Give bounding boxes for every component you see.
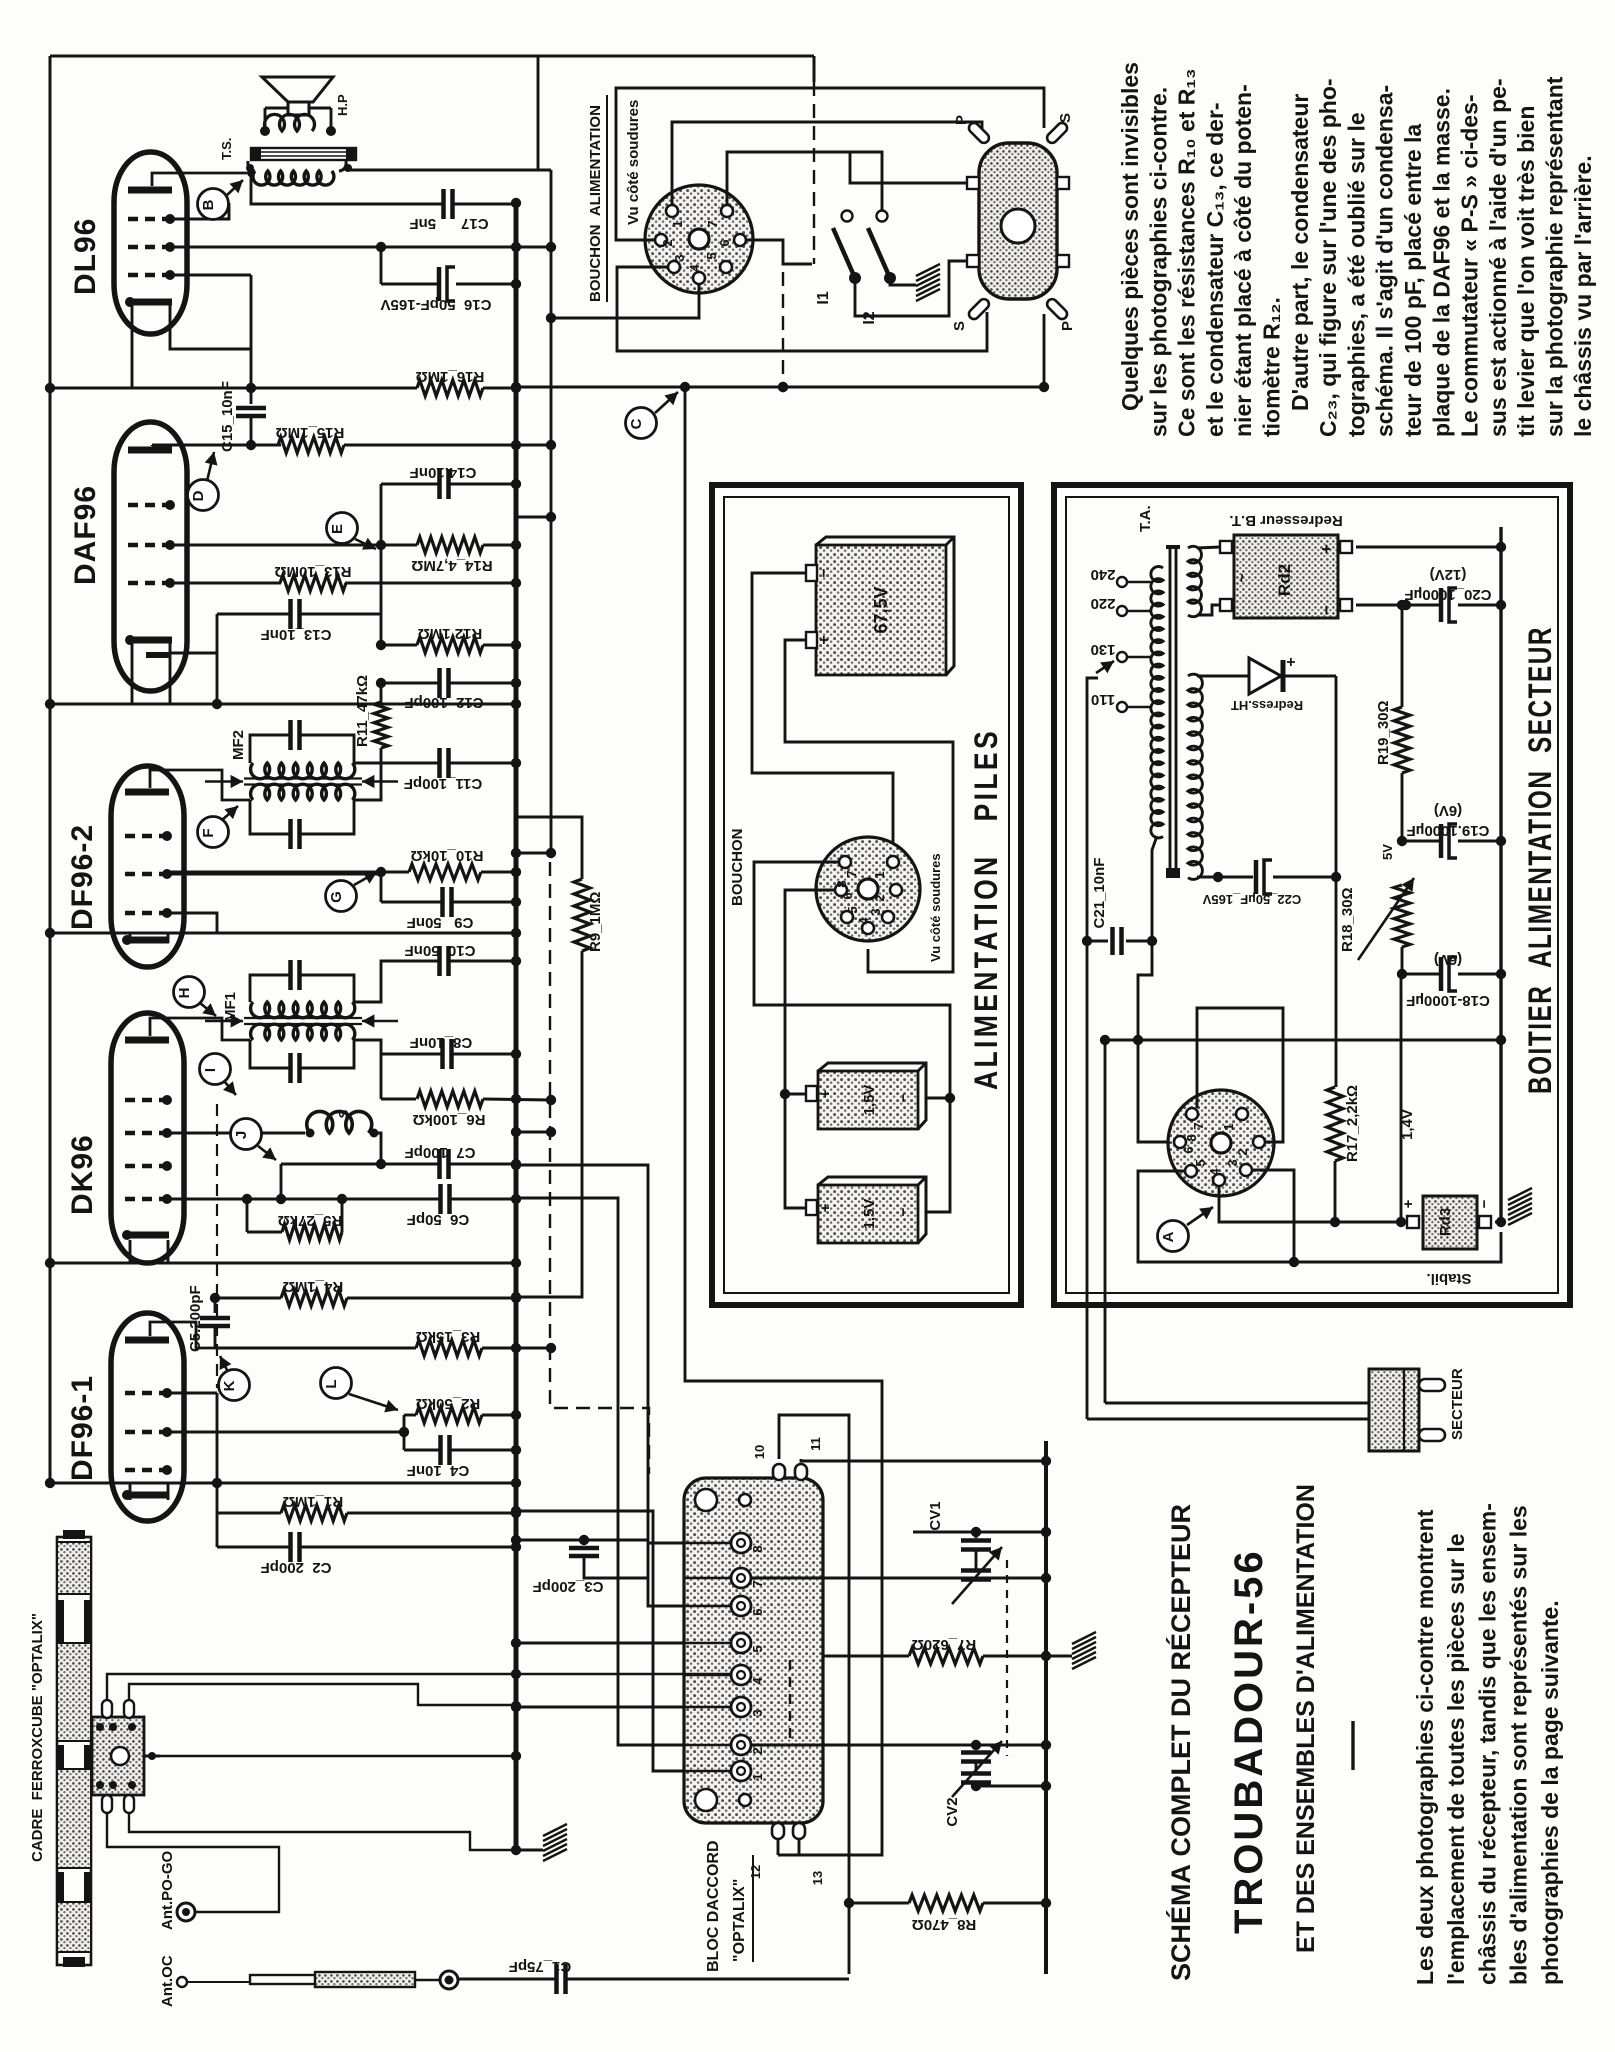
- svg-text:T.A.: T.A.: [1137, 505, 1154, 532]
- svg-text:Rd3: Rd3: [1437, 1208, 1454, 1236]
- svg-text:7: 7: [705, 220, 720, 227]
- label CV2: [944, 1797, 961, 1826]
- wire filament line DF96-2 row: [45, 928, 521, 938]
- node B: [198, 180, 244, 220]
- wire DF96-1 anode lead: [150, 1322, 215, 1348]
- svg-text:K: K: [221, 1380, 238, 1391]
- capacitor C9: [381, 872, 521, 917]
- svg-text:Redresseur B.T.: Redresseur B.T.: [1229, 512, 1342, 529]
- label R5: [278, 1212, 343, 1229]
- svg-text:C₂₃, qui figure sur l'une des: C₂₃, qui figure sur l'une des pho-: [1315, 78, 1341, 437]
- label R15: [276, 424, 345, 441]
- bloc mounting hole: [739, 1494, 751, 1506]
- wire DAF96 g2 row: [167, 540, 417, 550]
- capacitor C14: [381, 469, 521, 499]
- label C8: [410, 1034, 473, 1051]
- tap 220: [1090, 595, 1152, 616]
- svg-text:S: S: [336, 1109, 351, 1118]
- svg-text:P: P: [1059, 321, 1076, 331]
- svg-text:4: 4: [687, 264, 702, 272]
- svg-text:1,5V: 1,5V: [861, 1085, 878, 1116]
- label BOUCHON ALIMENTATION: [587, 95, 607, 302]
- wire socket pin1: [672, 122, 982, 205]
- svg-text:D'autre part, le condensateur: D'autre part, le condensateur: [1287, 94, 1313, 411]
- svg-text:plaque de la DAF96 et la masse: plaque de la DAF96 et la masse.: [1428, 88, 1454, 437]
- label Vu cote soudures piles: [928, 853, 943, 962]
- socket boitier: [1168, 1090, 1274, 1196]
- transformer TS core: [251, 148, 356, 160]
- svg-text:5: 5: [845, 906, 860, 913]
- resistor R16: [417, 380, 483, 396]
- svg-text:10: 10: [752, 1445, 767, 1459]
- vibrator prong S: [951, 297, 991, 331]
- svg-text:L: L: [323, 1379, 340, 1388]
- bloc pin 2: [684, 1735, 765, 1755]
- capacitor C3: [569, 1540, 648, 1578]
- speaker HP: [262, 77, 333, 115]
- svg-text:Ce sont les résistances R₁₀ et: Ce sont les résistances R₁₀ et R₁₃: [1174, 68, 1200, 437]
- label R8: [912, 1916, 977, 1933]
- svg-text:et le condensateur C₁₃, ce der: et le condensateur C₁₃, ce der-: [1202, 102, 1228, 437]
- label R16: [416, 368, 485, 385]
- ganged dashed link: [1006, 1560, 1008, 1756]
- voice coil: [260, 108, 336, 136]
- svg-text:bles d'alimentation sont repré: bles d'alimentation sont représentés sur…: [1506, 1505, 1532, 1985]
- transformer TA sec BT: [1188, 546, 1201, 616]
- label CV1: [927, 1501, 944, 1530]
- svg-text:R3_15kΩ: R3_15kΩ: [416, 1328, 481, 1345]
- svg-text:SECTEUR: SECTEUR: [1449, 1368, 1466, 1440]
- label CADRE FERROXCUBE: [29, 1613, 46, 1862]
- ground I2: [916, 264, 940, 301]
- label Redress HT: [1231, 698, 1303, 713]
- label R6: [413, 1111, 486, 1128]
- svg-text:J: J: [233, 1131, 250, 1139]
- svg-text:C12 100pF: C12 100pF: [404, 694, 483, 711]
- resistor R14: [417, 512, 556, 553]
- wire pin11 to rail: [801, 1456, 1051, 1466]
- wire piles pin6: [785, 890, 835, 1094]
- wire cadre pin bottomright: [129, 1813, 516, 1850]
- svg-text:R9_1MΩ: R9_1MΩ: [587, 892, 604, 952]
- svg-text:−: −: [895, 1207, 912, 1216]
- wire osc AVC stub: [511, 1127, 556, 1137]
- svg-text:1: 1: [872, 871, 887, 878]
- label R2: [416, 1395, 481, 1412]
- svg-text:R15_1MΩ: R15_1MΩ: [276, 424, 345, 441]
- svg-text:C16 50pF-165V: C16 50pF-165V: [381, 296, 492, 313]
- svg-text:C10 50nF: C10 50nF: [405, 942, 476, 959]
- svg-text:C7 100pF: C7 100pF: [405, 1144, 476, 1161]
- wire batt67 plus: [785, 640, 953, 972]
- wire filament line DK96 row: [45, 1258, 521, 1268]
- ferrite rod: [57, 1530, 91, 1967]
- wire piles plus rail: [780, 1089, 806, 1208]
- svg-text:6: 6: [717, 239, 732, 246]
- wire bus-bloc pin5: [511, 1638, 684, 1648]
- wire x217 lower: [212, 1393, 222, 1547]
- label BLOC DACCORD: [705, 1840, 753, 1972]
- label Ant PO-GO: [159, 1851, 176, 1930]
- svg-text:1,4V: 1,4V: [1399, 1109, 1416, 1140]
- svg-text:+: +: [817, 1089, 834, 1098]
- svg-text:C18-1000µF: C18-1000µF: [1406, 992, 1490, 1009]
- svg-text:C2 200pF: C2 200pF: [261, 1559, 332, 1576]
- label I2: [861, 311, 878, 324]
- svg-text:−: −: [895, 1093, 912, 1102]
- bloc mounting hole: [695, 1789, 717, 1811]
- svg-text:E: E: [329, 524, 346, 534]
- label C16: [381, 296, 492, 313]
- svg-text:R7_620Ω: R7_620Ω: [912, 1636, 977, 1653]
- svg-text:schéma. Il s'agit d'un condens: schéma. Il s'agit d'un condensa-: [1372, 85, 1398, 437]
- svg-text:+: +: [817, 1203, 834, 1212]
- label R4: [283, 1278, 343, 1295]
- capacitor C11: [354, 748, 521, 778]
- node I: [200, 1054, 237, 1096]
- wire DL96 fil left leg: [131, 305, 134, 388]
- wire DF96-1 g1: [167, 1392, 217, 1395]
- wire DL96 anode lead: [152, 169, 255, 186]
- svg-text:sur les photographies ci-contr: sur les photographies ci-contre.: [1145, 87, 1171, 437]
- wire socket pin4 filament: [1219, 1186, 1408, 1227]
- svg-text:châssis du récepteur, tandis q: châssis du récepteur, tandis que les ens…: [1474, 1503, 1500, 1985]
- battery 1,5V b: [806, 1177, 926, 1243]
- svg-text:3: 3: [750, 1709, 765, 1716]
- label 1,4V: [1399, 1109, 1416, 1140]
- wire mains lead A: [1082, 661, 1114, 1419]
- node E: [327, 513, 377, 550]
- svg-text:Vu côté soudures: Vu côté soudures: [928, 853, 943, 962]
- vibrator body: [979, 143, 1057, 299]
- wire DF96-2 g2: [167, 913, 217, 933]
- node H: [174, 977, 217, 1017]
- socket BOUCHON ALIMENTATION: [645, 185, 753, 293]
- capacitor C18: [1397, 957, 1506, 991]
- svg-text:4: 4: [856, 917, 871, 925]
- diode plate DAF96: [146, 652, 170, 658]
- label C13: [261, 626, 332, 643]
- bloc mounting hole: [739, 1794, 751, 1806]
- svg-text:130: 130: [1090, 641, 1115, 658]
- svg-text:R17_2,2kΩ: R17_2,2kΩ: [1344, 1085, 1361, 1162]
- svg-text:C: C: [628, 418, 645, 429]
- transformer MF1: [205, 960, 398, 1083]
- svg-text:MF2: MF2: [230, 730, 247, 760]
- resistor R3: [215, 1340, 556, 1356]
- label Ant OC: [159, 1955, 176, 2007]
- capacitor C19: [1397, 824, 1506, 858]
- svg-text:5: 5: [1193, 1159, 1208, 1166]
- capacitor C10: [354, 946, 521, 1002]
- tube DF96-2: [111, 766, 184, 967]
- wire cadre pin topleft: [107, 1674, 731, 1700]
- wire secteur upper: [1105, 1402, 1369, 1405]
- svg-text:R18_30Ω: R18_30Ω: [1339, 887, 1356, 952]
- svg-text:C6 50pF: C6 50pF: [407, 1211, 470, 1228]
- wire CV1 top: [913, 1527, 1051, 1537]
- socket BOUCHON piles: [816, 837, 920, 941]
- bloc pin 11: [795, 1437, 823, 1480]
- wire DF96-2 fil legs: [130, 933, 168, 943]
- svg-text:220: 220: [1090, 595, 1115, 612]
- transformer TA primary: [1151, 566, 1163, 837]
- bloc d'accord box: [684, 1478, 823, 1823]
- label C6: [407, 1211, 470, 1228]
- wire bus-bloc pin3: [511, 1702, 684, 1712]
- coil S: [306, 1111, 382, 1164]
- capacitor C16: [381, 267, 521, 301]
- svg-text:R11_47kΩ: R11_47kΩ: [354, 675, 371, 747]
- svg-text:2: 2: [750, 1747, 765, 1754]
- bloc pin 4: [684, 1665, 765, 1685]
- wire DF96-1 fil legs: [130, 1483, 168, 1500]
- svg-text:A: A: [1160, 1231, 1177, 1242]
- wire C16 branch: [380, 247, 383, 284]
- svg-text:R10_10kΩ: R10_10kΩ: [411, 847, 484, 864]
- wire diode out: [1331, 676, 1341, 882]
- box ALIMENTATION PILES: [712, 485, 1021, 1305]
- label C22: [1202, 892, 1301, 907]
- tube DAF96: [114, 422, 187, 691]
- svg-text:7: 7: [844, 870, 859, 877]
- wire x381 DAF: [380, 484, 383, 645]
- label C21: [1091, 858, 1108, 929]
- wire R9 top: [516, 817, 582, 879]
- capacitor C5: [200, 1293, 230, 1348]
- capacitor C12: [376, 668, 521, 698]
- capacitor C4: [404, 1435, 521, 1465]
- tap 130: [1090, 641, 1152, 662]
- title TROUBADOUR-56: [1227, 1548, 1271, 1934]
- svg-text:CADRE FERROXCUBE "OPTALIX": CADRE FERROXCUBE "OPTALIX": [29, 1613, 46, 1862]
- svg-text:R1_1MΩ: R1_1MΩ: [283, 1493, 343, 1510]
- label R13: [274, 563, 351, 580]
- svg-text:tiomètre R₁₂.: tiomètre R₁₂.: [1259, 297, 1285, 437]
- svg-text:+: +: [1317, 544, 1336, 554]
- svg-text:R6_100kΩ: R6_100kΩ: [413, 1111, 486, 1128]
- capacitor C21: [1087, 927, 1157, 955]
- wire x404: [399, 1415, 409, 1450]
- capacitor C7: [281, 1149, 521, 1179]
- svg-text:Le commutateur « P-S » ci-des-: Le commutateur « P-S » ci-des-: [1457, 94, 1483, 437]
- label R19: [1375, 700, 1392, 765]
- svg-text:C11_100pF: C11_100pF: [404, 775, 482, 792]
- wire cadre pin bottomleft: [107, 1813, 279, 1912]
- svg-text:~: ~: [1234, 573, 1251, 582]
- label BOUCHON: [729, 829, 746, 907]
- wire socket pin5: [1138, 1171, 1501, 1262]
- svg-text:(6V): (6V): [1434, 802, 1462, 819]
- wire bus-rail 853: [511, 848, 556, 858]
- wire 1,4V: [1400, 974, 1403, 1222]
- bloc pin 3: [684, 1697, 765, 1717]
- wire TA-diode: [1197, 675, 1249, 678]
- text paragraph bottom right: [1412, 1503, 1563, 1985]
- svg-text:ALIMENTATION PILES: ALIMENTATION PILES: [968, 728, 1004, 1090]
- svg-text:5V: 5V: [1380, 844, 1395, 860]
- capacitor C1: [458, 1964, 849, 1994]
- label C4: [407, 1462, 470, 1479]
- label C5: [187, 1285, 204, 1352]
- commutator dashed link tubes: [216, 1104, 218, 1388]
- svg-text:Redress.HT: Redress.HT: [1231, 698, 1303, 713]
- svg-text:−: −: [1476, 1199, 1493, 1208]
- wire Rd3 minus: [1495, 1217, 1506, 1227]
- svg-text:7: 7: [1191, 1122, 1206, 1129]
- svg-text:CV1: CV1: [927, 1501, 944, 1530]
- svg-text:"OPTALIX": "OPTALIX": [731, 1879, 748, 1962]
- title ET DES ENSEMBLES: [1292, 1484, 1320, 1953]
- resistor R8: [844, 1895, 1051, 1911]
- bloc mounting hole: [695, 1489, 717, 1511]
- resistor R17: [1327, 1087, 1343, 1227]
- label DL96: [69, 218, 102, 295]
- svg-text:C21_10nF: C21_10nF: [1091, 858, 1108, 929]
- wire filament line DAF96 row: [45, 699, 521, 709]
- stabilisateur Rd3: [1400, 1196, 1493, 1249]
- resistor R6: [381, 1054, 556, 1107]
- label C17: [409, 215, 488, 232]
- wire secteur lower: [1087, 1418, 1369, 1421]
- svg-text:DL96: DL96: [69, 218, 102, 295]
- bloc pin 1: [684, 1761, 765, 1781]
- bloc pin 6: [684, 1596, 765, 1616]
- label DF96-1: [66, 1375, 99, 1481]
- commutator dashed inside bloc: [789, 1660, 791, 1745]
- label Stabil: [1426, 1270, 1471, 1287]
- resistor R10: [167, 864, 521, 880]
- svg-text:1: 1: [1221, 1123, 1236, 1130]
- svg-text:BOITIER ALIMENTATION SECTEUR: BOITIER ALIMENTATION SECTEUR: [1522, 626, 1558, 1094]
- label MF1: [222, 992, 239, 1022]
- bloc pin 5: [684, 1633, 765, 1653]
- resistor R12: [376, 637, 521, 653]
- wire socket pin6: [746, 240, 812, 264]
- wire socket pin4: [546, 284, 699, 323]
- wire DAF96 fil legs: [132, 643, 170, 704]
- label C2: [261, 1559, 332, 1576]
- capacitor C13: [217, 599, 381, 629]
- svg-text:R13_10MΩ: R13_10MΩ: [274, 563, 351, 580]
- svg-text:G: G: [328, 891, 345, 903]
- label C3: [533, 1578, 604, 1595]
- svg-text:DAF96: DAF96: [69, 485, 102, 585]
- svg-text:+: +: [816, 635, 833, 644]
- transformer TA sec HT: [1188, 674, 1202, 879]
- svg-text:+: +: [1283, 657, 1300, 666]
- wire pin10 to antenna: [779, 1415, 849, 1974]
- wire R17 feed: [1335, 877, 1336, 1087]
- label R11: [354, 675, 371, 747]
- svg-text:2: 2: [660, 239, 675, 246]
- ground R7: [1072, 1632, 1096, 1669]
- label C1: [509, 1958, 572, 1975]
- svg-text:S: S: [1057, 113, 1074, 123]
- wire TS secondary to rail: [348, 56, 551, 170]
- wire batt2 minus: [926, 1100, 950, 1212]
- svg-text:8: 8: [1184, 1134, 1199, 1141]
- label DK96: [66, 1134, 99, 1215]
- svg-text:5: 5: [704, 252, 719, 259]
- wire I1 to vibrator: [855, 261, 967, 316]
- svg-text:Ant.OC: Ant.OC: [159, 1955, 176, 2007]
- telescopic antenna: [177, 1971, 458, 1989]
- svg-text:110: 110: [1091, 691, 1115, 708]
- capacitor C17: [444, 189, 522, 219]
- svg-text:P: P: [953, 115, 970, 125]
- svg-text:I1: I1: [815, 291, 832, 304]
- svg-text:67,5V: 67,5V: [871, 586, 891, 633]
- svg-text:1: 1: [750, 1773, 765, 1780]
- svg-text:teur de 100 pF, placé entre la: teur de 100 pF, placé entre la: [1400, 124, 1426, 437]
- commutator dashed link mid: [778, 272, 788, 392]
- svg-text:R14_4,7MΩ: R14_4,7MΩ: [411, 557, 492, 574]
- svg-text:I: I: [202, 1068, 219, 1072]
- wire socket pin3: [1252, 1170, 1299, 1267]
- box BOITIER: [1054, 485, 1570, 1305]
- wire bus-bloc row C3: [511, 1535, 648, 1545]
- wire DAF96 diode lead: [170, 652, 217, 655]
- capacitor C2: [217, 1532, 521, 1562]
- label BOITIER ALIMENTATION SECTEUR: [1522, 626, 1558, 1094]
- svg-text:sur la photographie représenta: sur la photographie représentant: [1542, 76, 1568, 437]
- label ALIMENTATION PILES: [968, 728, 1004, 1090]
- wire rail B+: [550, 170, 553, 858]
- svg-text:sus est actionné à l'aide d'un: sus est actionné à l'aide d'un pe-: [1485, 78, 1511, 437]
- wire piles pin7: [754, 862, 955, 1103]
- svg-text:BLOC DACCORD: BLOC DACCORD: [705, 1840, 722, 1972]
- wire pin2 to CV2: [751, 1740, 1051, 1750]
- wire left border: [49, 56, 52, 1483]
- wire TA-Rd2: [1197, 547, 1220, 615]
- svg-text:S: S: [951, 321, 968, 331]
- label C11: [404, 775, 482, 792]
- svg-text:11: 11: [808, 1437, 823, 1451]
- svg-text:D: D: [190, 490, 207, 501]
- svg-text:F: F: [200, 828, 217, 837]
- label C19: [1407, 802, 1490, 839]
- wire top border: [50, 56, 814, 82]
- bloc pin 10: [752, 1445, 785, 1480]
- commutator dashed to bloc: [550, 862, 649, 1474]
- resistor R18 rheostat: [1358, 878, 1414, 974]
- svg-text:MF1: MF1: [222, 992, 239, 1022]
- node C: [626, 392, 679, 439]
- label I1: [815, 291, 832, 304]
- svg-text:T.S.: T.S.: [219, 138, 234, 160]
- wire mains lead B: [1100, 1035, 1506, 1403]
- wire node x251: [246, 275, 256, 404]
- wire pin7 to CV1: [751, 1573, 1051, 1583]
- rectifier Rd2: [1220, 535, 1352, 618]
- svg-text:TROUBADOUR-56: TROUBADOUR-56: [1227, 1548, 1271, 1934]
- node D: [188, 452, 219, 511]
- svg-text:C19.1000µF: C19.1000µF: [1407, 822, 1490, 839]
- svg-text:H: H: [176, 988, 193, 999]
- svg-text:(12V): (12V): [1430, 566, 1467, 583]
- wire DK96 g osc: [167, 1132, 305, 1135]
- label 5V: [1380, 844, 1395, 860]
- wire bloc right rail: [1044, 1441, 1048, 1974]
- wire DF96-1 g2: [167, 1431, 404, 1434]
- svg-text:4: 4: [1207, 1168, 1222, 1176]
- wire bus-bloc pin1: [511, 1506, 684, 1771]
- switch I1: [833, 211, 861, 285]
- label C10: [405, 942, 476, 959]
- svg-text:6: 6: [750, 1608, 765, 1615]
- wire x217 DAF96: [212, 614, 222, 709]
